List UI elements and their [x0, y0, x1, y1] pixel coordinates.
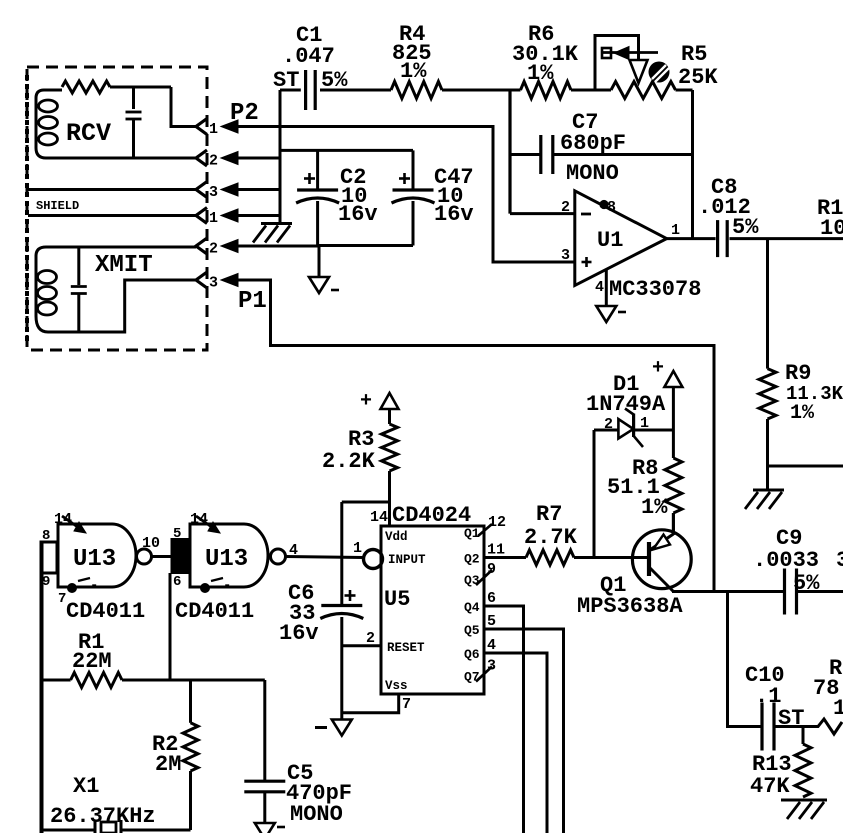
svg-text:16v: 16v — [279, 621, 319, 646]
svg-text:3: 3 — [561, 247, 570, 264]
svg-text:680pF: 680pF — [560, 131, 626, 156]
wire Q6 column — [484, 653, 547, 833]
svg-text:1: 1 — [640, 415, 649, 432]
NAND gate U13a body — [58, 524, 136, 587]
svg-text:2: 2 — [209, 153, 218, 170]
inductor RCV winding — [44, 89, 62, 92]
svg-text:1: 1 — [353, 540, 362, 557]
svg-text:4: 4 — [487, 637, 496, 654]
svg-text:47K: 47K — [750, 774, 790, 799]
wire arrow into pin 3 — [221, 183, 238, 196]
svg-text:1%: 1% — [527, 61, 554, 86]
V- supply arrow (C5) — [255, 823, 275, 833]
svg-text:26.37KHz: 26.37KHz — [50, 804, 156, 829]
wire emitter supply — [672, 387, 675, 458]
wire P1 pin3 long run — [237, 280, 714, 592]
wire P1 pin1 to ground bus — [237, 214, 281, 217]
svg-text:1: 1 — [209, 121, 218, 138]
NAND gate U13b body — [190, 524, 268, 587]
svg-text:R7: R7 — [536, 502, 562, 527]
ground (input bus) — [261, 222, 292, 225]
wire R2 bottom — [189, 771, 192, 830]
svg-text:2.2K: 2.2K — [322, 449, 376, 474]
wire R9 node to right edge — [768, 465, 843, 468]
U13b pin7 marker — [200, 583, 210, 593]
svg-text:+: + — [360, 390, 372, 413]
wire XMIT bottom — [48, 280, 196, 332]
ground (below R9) — [753, 489, 784, 492]
svg-text:5%: 5% — [793, 571, 820, 596]
capacitor C5 — [244, 780, 285, 783]
wire to V- arrow — [318, 246, 321, 278]
resistor R4 — [391, 82, 442, 99]
minus inside op-amp — [581, 213, 591, 216]
svg-text:7: 7 — [402, 696, 411, 713]
svg-text:1%: 1% — [400, 59, 427, 84]
svg-text:12: 12 — [488, 514, 506, 531]
pot R5 wiper terminal square — [602, 48, 611, 58]
wire RCV top — [110, 86, 171, 89]
wire left feedback bus — [40, 542, 44, 833]
svg-text:14: 14 — [370, 509, 388, 526]
svg-text:MONO: MONO — [566, 161, 619, 186]
svg-text:MONO: MONO — [290, 802, 343, 827]
svg-text:10: 10 — [142, 535, 160, 552]
svg-text:U13: U13 — [205, 546, 248, 573]
svg-text:CD4011: CD4011 — [175, 599, 254, 624]
ground (below R13) — [781, 799, 827, 802]
pot R5 wiper arrowhead — [614, 47, 629, 60]
svg-text:INPUT: INPUT — [388, 553, 426, 567]
svg-text:-: - — [90, 578, 98, 594]
wire C47 top lead — [412, 150, 415, 190]
wire C10 drop — [728, 592, 763, 727]
svg-text:1: 1 — [209, 210, 218, 227]
IC U5 body — [381, 526, 484, 694]
svg-text:2: 2 — [561, 199, 570, 216]
wire C2/C47 top rail — [280, 149, 413, 152]
wire R3 to U5 Vdd — [388, 471, 391, 526]
wire R13 top — [802, 727, 805, 745]
capacitor C6 — [321, 604, 362, 607]
wire RCV bottom to P2 pin2 — [46, 157, 196, 160]
wire U13a out to U13b in — [152, 555, 172, 558]
resistor R14 (cut at edge) — [803, 719, 842, 734]
svg-text:Q2: Q2 — [464, 552, 480, 567]
svg-text:1: 1 — [833, 696, 843, 721]
svg-text:5: 5 — [487, 613, 496, 630]
U13b input tie box — [172, 539, 189, 573]
resistor R3 — [382, 424, 398, 471]
connector pin 2 chevron — [196, 150, 207, 166]
U13a input tie box — [41, 542, 57, 573]
svg-text:Vdd: Vdd — [385, 530, 408, 544]
wire P2 pin2 to ground bus — [237, 157, 281, 160]
svg-text:MC33078: MC33078 — [609, 277, 701, 302]
wire zener left leg — [593, 430, 596, 558]
crystal X1 (cut at bottom edge) — [42, 829, 96, 832]
resistor (RCV series element) — [62, 81, 110, 93]
wire C2/C47 bottom rail — [319, 244, 413, 247]
wire C1 ground bus — [279, 90, 282, 222]
svg-text:.0033: .0033 — [753, 548, 819, 573]
wire inverting input pin2 — [510, 212, 575, 215]
wire R3 top — [388, 409, 391, 424]
V- supply arrow (input section) — [309, 277, 329, 293]
svg-text:16v: 16v — [338, 202, 378, 227]
capacitor C10 — [760, 703, 763, 751]
capacitor C47 — [393, 188, 434, 191]
svg-text:2: 2 — [209, 241, 218, 258]
svg-text:Vss: Vss — [385, 679, 408, 693]
pot R5 wiper line — [603, 51, 658, 54]
capacitor C1 — [280, 89, 301, 92]
svg-text:5%: 5% — [732, 215, 759, 240]
svg-text:2M: 2M — [155, 752, 181, 777]
wire Vss pin7 — [342, 694, 399, 713]
wire P2 pin3 to ground bus — [237, 188, 281, 191]
pin8 dot — [599, 200, 608, 209]
wire P1 pin2 row — [237, 245, 319, 248]
svg-text:1: 1 — [671, 222, 680, 239]
plus C6 — [345, 594, 356, 597]
capacitor (RCV tank) — [132, 87, 135, 109]
wire C5 drop — [263, 680, 266, 781]
svg-text:P2: P2 — [230, 100, 259, 127]
svg-text:U1: U1 — [597, 228, 623, 253]
svg-text:1%: 1% — [790, 402, 815, 425]
svg-text:6: 6 — [487, 590, 496, 607]
wire reset pin2 — [342, 644, 381, 647]
svg-text:Q7: Q7 — [464, 670, 480, 685]
svg-text:11: 11 — [487, 542, 505, 559]
dashed enclosure (line transformer module) — [27, 67, 207, 350]
svg-text:XMIT: XMIT — [95, 252, 153, 279]
svg-text:1%: 1% — [641, 495, 668, 520]
pot R5 screw adjust symbol — [649, 62, 670, 83]
wire arrow into pin 1 — [221, 209, 238, 222]
wire P2 pin1 to op-amp +input — [237, 127, 575, 263]
resistor R6 — [510, 89, 521, 92]
svg-text:SHIELD: SHIELD — [36, 199, 79, 213]
svg-text:2.7K: 2.7K — [524, 525, 578, 550]
svg-text:4: 4 — [595, 279, 604, 296]
connector pin 2 chevron — [196, 238, 207, 254]
wire shield row4 — [28, 214, 196, 217]
svg-text:3: 3 — [209, 275, 218, 292]
U13a pin7 marker — [67, 583, 77, 593]
wire op-amp output — [667, 237, 716, 240]
wire arrow into pin 1 — [221, 120, 238, 133]
svg-text:Q1: Q1 — [464, 526, 480, 541]
U13b output bubble — [271, 549, 286, 564]
svg-text:6: 6 — [173, 574, 181, 590]
wire R1 row — [42, 679, 71, 682]
svg-text:Q4: Q4 — [464, 600, 480, 615]
svg-text:ST: ST — [778, 706, 804, 731]
svg-text:Q6: Q6 — [464, 647, 480, 662]
svg-text:4: 4 — [289, 542, 298, 559]
capacitor C7 — [510, 153, 540, 156]
wire R8 to emitter — [672, 513, 675, 534]
svg-text:3: 3 — [209, 184, 218, 201]
Q1 emitter — [672, 513, 675, 535]
V- supply arrow (U5) — [332, 720, 352, 736]
capacitor C8 — [716, 220, 719, 257]
svg-text:5%: 5% — [321, 68, 348, 93]
wire arrow into pin 2 — [221, 240, 238, 253]
op-amp U1 triangle — [575, 191, 667, 286]
wire XMIT top to P1 pin2 — [46, 246, 196, 249]
svg-text:8: 8 — [607, 199, 616, 216]
svg-text:ST: ST — [273, 68, 299, 93]
svg-text:Q3: Q3 — [464, 573, 480, 588]
wire arrow into pin 2 — [221, 152, 238, 165]
wire arrow into pin 3 — [221, 274, 238, 287]
wire C6 bus upper — [340, 502, 343, 606]
svg-text:X1: X1 — [73, 774, 99, 799]
capacitor C2 — [297, 188, 338, 191]
U5 input bubble — [364, 550, 383, 569]
wire zener row — [594, 429, 673, 432]
wire Q5 column — [484, 629, 564, 833]
svg-text:16v: 16v — [434, 202, 474, 227]
svg-text:1N749A: 1N749A — [586, 392, 666, 417]
svg-text:CD4024: CD4024 — [392, 503, 471, 528]
wire R9 top — [766, 239, 769, 369]
potentiometer R5 body — [611, 82, 676, 99]
svg-text:5: 5 — [173, 526, 181, 542]
svg-text:25K: 25K — [678, 65, 718, 90]
transistor Q1 body — [632, 530, 691, 589]
V- supply arrow (op-amp) — [596, 306, 616, 322]
plus C47 — [399, 177, 410, 180]
wire R9 bottom — [766, 419, 769, 489]
connector pin 3 chevron — [196, 272, 207, 288]
capacitor C9 — [783, 569, 786, 615]
Q1 collector — [649, 567, 673, 592]
wire Vdd rail to C6 bus — [342, 501, 390, 504]
svg-text:RESET: RESET — [387, 641, 425, 655]
wire shield row3 — [28, 188, 196, 191]
svg-text:P1: P1 — [238, 288, 267, 315]
resistor R9 — [759, 369, 776, 419]
svg-text:8: 8 — [42, 528, 50, 544]
node junction R4/R6/C7/op-amp — [508, 90, 511, 214]
capacitor (XMIT) — [77, 247, 80, 285]
svg-text:2: 2 — [604, 416, 613, 433]
svg-text:22M: 22M — [72, 649, 112, 674]
plus C2 — [304, 177, 315, 180]
wire Q4 column — [484, 606, 524, 833]
resistor R1 — [71, 673, 122, 688]
svg-text:U13: U13 — [73, 546, 116, 573]
svg-text:MPS3638A: MPS3638A — [577, 594, 683, 619]
wire R5 feedback drop — [691, 90, 694, 239]
Q1 base bar — [647, 542, 651, 576]
wire U13b out to U5 input — [286, 557, 364, 558]
U13a output bubble — [137, 549, 152, 564]
wire RCV top to P2 pin1 — [171, 87, 196, 127]
svg-text:Q5: Q5 — [464, 623, 480, 638]
svg-text:+: + — [652, 357, 664, 380]
svg-text:R5: R5 — [681, 42, 707, 67]
plus inside op-amp — [582, 261, 592, 264]
wire C2 top lead — [316, 150, 319, 190]
connector pin 3 chevron — [196, 182, 207, 198]
pin4 stub — [605, 270, 608, 306]
wire R2 top — [189, 680, 192, 723]
pot R5 wiper arrow triangle — [630, 60, 648, 83]
svg-text:CD4011: CD4011 — [66, 599, 145, 624]
svg-text:-: - — [223, 578, 231, 594]
svg-text:3: 3 — [836, 548, 843, 573]
resistor R7 — [484, 556, 526, 559]
resistor R13 — [795, 744, 811, 797]
svg-text:.047: .047 — [282, 44, 335, 69]
svg-text:10: 10 — [820, 216, 843, 241]
zener diode D1 — [618, 419, 633, 439]
connector pin 1 chevron — [196, 119, 207, 135]
wire gate2 input drop — [169, 573, 172, 680]
connector pin 1 chevron — [196, 208, 207, 224]
wire R4 to junction — [442, 89, 510, 92]
resistor R2 — [183, 723, 198, 771]
pot R5 end-to-wiper strap — [595, 36, 639, 91]
inductor XMIT winding — [36, 247, 48, 332]
svg-text:U5: U5 — [384, 587, 410, 612]
wire R6 to R5 — [571, 89, 611, 92]
svg-text:RCV: RCV — [66, 119, 111, 148]
wire collector row — [672, 590, 785, 593]
resistor R8 — [665, 458, 682, 513]
